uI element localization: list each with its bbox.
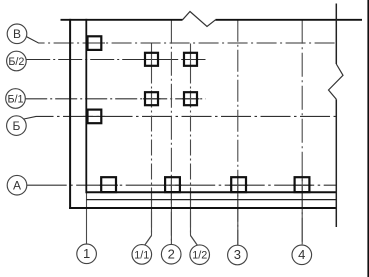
svg-text:Б: Б <box>12 119 20 133</box>
svg-text:4: 4 <box>298 247 305 262</box>
svg-text:Б/1: Б/1 <box>7 94 23 106</box>
axis line B2 horizontal (y=116.4) <box>24 116 337 119</box>
axis line 1/2 vertical (x=190.5) <box>191 44 198 246</box>
column on wall A row 3 <box>231 177 246 192</box>
axis circle B/1 <box>6 89 26 109</box>
axis circle B2 <box>7 116 27 136</box>
break zigzag top <box>183 12 216 27</box>
axis circle A <box>7 175 27 195</box>
axis line 4 vertical (x=302.2) <box>301 20 303 245</box>
column on wall A row 2 <box>165 177 180 192</box>
leader solid ends above bottom circles <box>170 194 172 244</box>
axis circle 3 <box>228 245 248 265</box>
column at 1/1 x B/2 <box>145 53 158 66</box>
axis 3 solid segment through wall column <box>237 176 239 195</box>
axis line B horizontal (y=43) <box>26 37 336 44</box>
column at 1/2 x B/1 <box>184 92 197 105</box>
axis line B/2 horizontal (y=59.5) <box>26 59 205 61</box>
svg-text:А: А <box>13 178 21 192</box>
svg-text:3: 3 <box>234 247 241 262</box>
axis line 1 vertical below wall (x=86.5) <box>86 193 88 244</box>
axis 2 solid segment through wall column <box>170 176 172 195</box>
pilaster column at axis B2 <box>88 110 102 124</box>
axis line A horizontal (y=185.2) <box>27 184 337 186</box>
axis B solid segment through pilaster <box>83 42 105 44</box>
svg-text:1: 1 <box>83 246 90 261</box>
axis line 1/1 vertical (x=151.5) <box>145 44 152 246</box>
axis circle 4 <box>292 245 312 265</box>
axis line 3 vertical (x=237.8) <box>237 20 239 245</box>
pilaster column at axis B <box>88 36 102 50</box>
wall top edge with break <box>61 19 183 21</box>
bottom wall outer edge <box>69 207 336 209</box>
axis A solid segments through wall columns <box>100 184 119 186</box>
axis B/2 solid segments through columns <box>143 59 161 61</box>
axis circle B/2 <box>7 51 27 71</box>
axis B/1 solid segments through columns <box>143 98 161 100</box>
axis circle B <box>7 24 27 44</box>
svg-text:В: В <box>13 27 21 41</box>
axis B2 solid segment through pilaster <box>83 115 105 117</box>
left wall outer edge <box>69 19 71 209</box>
column at 1/1 x B/1 <box>145 92 158 105</box>
axis circle 1/2 <box>190 245 210 265</box>
bottom wall middle line <box>86 199 336 201</box>
column on wall A row 1 <box>101 177 116 192</box>
axis circle 1 <box>77 244 97 264</box>
left wall inner edge (axis 1) <box>85 19 87 193</box>
svg-text:1/1: 1/1 <box>134 249 149 261</box>
axis circle 1/1 <box>132 245 152 265</box>
svg-text:1/2: 1/2 <box>192 250 207 262</box>
axis 1/2 solid segments through columns <box>190 51 192 68</box>
column on wall A row 4 <box>295 177 310 192</box>
axis line 2 vertical (x=171.4) <box>170 20 172 245</box>
column at 1/2 x B/2 <box>184 53 197 66</box>
axis 4 solid segment through wall column <box>301 176 303 195</box>
axis 1/1 solid segments through columns <box>151 51 153 68</box>
right edge line with break <box>335 4 337 65</box>
bottom wall inner edge <box>86 191 336 193</box>
axis circle 2 <box>161 244 181 264</box>
svg-text:Б/2: Б/2 <box>8 56 24 68</box>
axis line B/1 horizontal (y=98.8) <box>25 98 205 100</box>
break zigzag right <box>329 64 344 99</box>
svg-text:2: 2 <box>168 246 175 261</box>
drawing frame border right <box>367 0 369 277</box>
